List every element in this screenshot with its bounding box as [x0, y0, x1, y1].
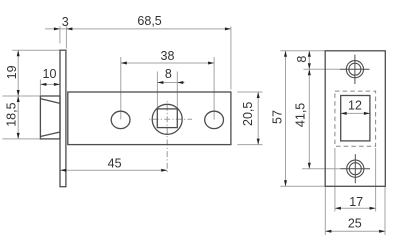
dim 41,5 arrow bottom: [308, 163, 311, 169]
plate bottom extension line: [280, 185, 325, 187]
dim 8 right extension line: [176, 72, 178, 109]
dim 8 / 41,5 dimension line: [308, 51, 310, 169]
dim 25 dimension line: [325, 230, 385, 232]
screw1 outer circle: [346, 61, 363, 78]
plate top extension line: [280, 50, 325, 52]
dim 45 dimension line: [60, 169, 167, 171]
dim 10 arrow left: [40, 83, 46, 86]
dim 20,5 arrow top: [257, 92, 260, 98]
spindle vertical centerline: [166, 99, 168, 119]
dim 25 arrow left: [325, 230, 331, 233]
dim 38 arrow right: [208, 62, 214, 65]
dim 18,5 arrow top: [17, 96, 20, 102]
dim 68,5 right extension line: [230, 26, 232, 89]
dim 38 right extension line: [213, 57, 215, 120]
dim 19 arrow top: [17, 50, 20, 56]
dim 12 dimension line: [341, 112, 370, 114]
cutout rectangle: [341, 96, 370, 141]
dim 41,5 arrow top: [308, 69, 311, 75]
dim 17 left extension line: [334, 148, 336, 212]
dim 19 arrow bottom: [17, 90, 20, 96]
dim 3 left extension line: [59, 26, 61, 43]
svg-text:25: 25: [348, 217, 362, 231]
dim 57 dimension line: [285, 51, 287, 187]
faceplate (side view): [60, 50, 66, 187]
dim 68,5 / 3 dimension line: [45, 28, 231, 30]
svg-text:19: 19: [5, 65, 19, 79]
svg-text:17: 17: [349, 195, 363, 209]
dim 45 arrow right: [161, 169, 167, 172]
wire: extension and dimension lines (gray): [280, 51, 385, 235]
dim 8 left extension line: [156, 72, 158, 109]
dim 38 left extension line: [120, 57, 122, 120]
dim 20,5 dimension line: [257, 92, 259, 145]
latch bolt: [40, 96, 60, 139]
dashed cutout boundary: [335, 91, 376, 146]
dim 25 right extension line: [384, 186, 386, 235]
dim 3 outside arrow right: [66, 27, 72, 30]
faceplate top extension line: [12, 49, 60, 51]
dim 18,5 dimension line: [17, 96, 19, 139]
svg-text:38: 38: [161, 49, 175, 63]
screw2 cross: [341, 168, 371, 170]
screw2 inner circle: [349, 163, 361, 175]
bolt bevel bottom: [40, 132, 60, 137]
svg-text:3: 3: [62, 15, 69, 29]
dim 3 right extension line: [65, 26, 67, 48]
dim 38 dimension line: [121, 62, 214, 64]
dim 10 left extension line: [39, 80, 41, 95]
svg-text:12: 12: [348, 99, 362, 113]
svg-text:8: 8: [165, 67, 172, 81]
dim 8 arrow top: [308, 51, 311, 57]
wire: extension lines (gray): [2, 26, 262, 170]
svg-text:20,5: 20,5: [241, 102, 255, 126]
arrowheads right view: [284, 51, 385, 233]
dim 57 arrow bottom: [284, 180, 287, 186]
bolt bevel top: [40, 99, 60, 104]
plate rectangle: [325, 51, 385, 187]
dim 12 arrow left: [341, 112, 347, 115]
dim 17 dimension line: [335, 207, 376, 209]
bolt bottom extension line: [2, 138, 40, 140]
dim 18,5 arrow bottom: [17, 133, 20, 139]
bolt top extension line: [2, 95, 40, 97]
svg-text:41,5: 41,5: [293, 103, 307, 127]
dimension texts right view: [270, 56, 363, 231]
dim 12 arrow right: [364, 112, 370, 115]
screw1 center extension line: [304, 68, 341, 70]
latch body: [68, 92, 231, 145]
strike plate outline: [325, 51, 385, 187]
svg-text:10: 10: [43, 67, 57, 81]
dim 8 dimension line: [157, 82, 184, 84]
dim 10 arrow right: [54, 83, 60, 86]
dim 10 dimension line: [40, 83, 60, 85]
dim 45 arrow left: [60, 169, 66, 172]
screw1 inner circle: [349, 63, 361, 75]
dim 38 arrow left: [121, 62, 127, 65]
svg-text:18,5: 18,5: [4, 102, 18, 126]
dim 19 dimension line: [17, 50, 19, 96]
dim 17 right extension line: [375, 148, 377, 212]
arrowheads left view: [17, 27, 260, 171]
screw2 outer circle: [347, 160, 364, 177]
spindle horizontal centerline: [147, 118, 167, 120]
screw2 center extension line: [302, 168, 341, 170]
dim 20,5 top extension line: [237, 91, 262, 93]
svg-text:57: 57: [270, 110, 284, 124]
svg-text:68,5: 68,5: [137, 14, 161, 28]
screw hole cross marks: [340, 55, 370, 184]
dim 17 arrow left: [335, 207, 341, 210]
dim 20,5 arrow bottom: [257, 139, 260, 145]
dim 8 arrow left: [157, 81, 163, 84]
dim 25 left extension line: [324, 186, 326, 235]
part outlines (dark): [40, 50, 231, 187]
dim 3 outside arrow left: [54, 27, 60, 30]
dimension texts left view: [4, 14, 254, 170]
dim 8 arrow right: [177, 81, 183, 84]
svg-text:8: 8: [295, 56, 309, 63]
dim 25 arrow right: [379, 230, 385, 233]
hole left: [111, 111, 130, 128]
dim 20,5 bottom extension line: [237, 144, 262, 146]
dim 57 arrow top: [284, 51, 287, 57]
hole right: [205, 111, 224, 128]
dim 8 arrow bottom: [308, 63, 311, 69]
spindle square: [157, 109, 177, 128]
dim 68,5 arrow right: [225, 27, 231, 30]
svg-text:45: 45: [108, 156, 122, 170]
screw1 cross: [340, 68, 370, 70]
dim 17 arrow right: [370, 207, 376, 210]
spindle circle: [152, 104, 182, 134]
